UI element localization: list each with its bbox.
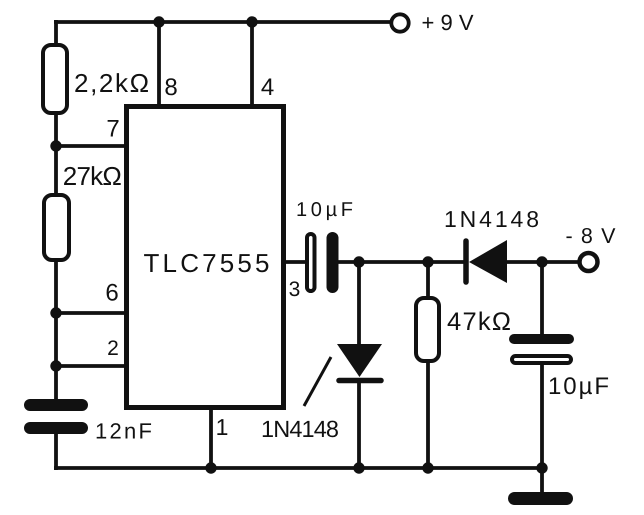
terminal -8V: [580, 253, 598, 271]
capacitor C2 10uF plate 1 (outlined): [307, 234, 315, 291]
svg-text:6: 6: [105, 280, 118, 307]
wire: pin 6 stub: [56, 311, 127, 315]
leader line for D2 label: [304, 357, 331, 406]
resistor R3 47kohm: [416, 298, 439, 361]
svg-text:1N4148: 1N4148: [444, 206, 539, 232]
wire: junction down to C3: [540, 262, 544, 336]
svg-text:2,2kΩ: 2,2kΩ: [74, 68, 149, 98]
diode D1 1N4148 triangle: [469, 240, 507, 283]
svg-text:7: 7: [106, 116, 119, 143]
capacitor C3 10uF plate 2 (outlined): [512, 356, 571, 363]
node: junction to D2: [353, 256, 364, 267]
diode D1 cathode bar: [463, 241, 469, 282]
node: rail to pin 4 junction: [246, 16, 257, 27]
wire: R1 to node 7: [54, 113, 58, 196]
wire: D2 to bottom rail: [357, 380, 361, 468]
wire: pin 1 to bottom rail: [209, 408, 213, 468]
capacitor C1 12nF plate 2: [24, 422, 88, 434]
node: junction at pin 2: [50, 360, 61, 371]
svg-text:2: 2: [107, 337, 119, 360]
svg-text:4: 4: [261, 74, 274, 101]
wire: C1 down to bottom rail: [54, 433, 58, 470]
node: junction at pin 7: [50, 140, 61, 151]
wire: R3 to bottom rail: [426, 361, 430, 468]
wire: bottom rail: [54, 466, 542, 470]
wire: C3 to bottom rail: [540, 365, 544, 468]
node: junction at pin 6: [50, 307, 61, 318]
wire: pin 3 stub: [283, 260, 306, 264]
node: D2 junction on bottom rail: [353, 462, 364, 473]
node: ground junction on bottom rail: [536, 462, 547, 473]
capacitor C2 10uF plate 2 (filled): [327, 232, 339, 293]
wire: +9V top rail: [54, 20, 390, 24]
node: rail to pin 8 junction: [153, 16, 164, 27]
wire: down to diode D2: [357, 262, 361, 346]
resistor R1 2,2kohm: [43, 45, 67, 113]
svg-text:TLC7555: TLC7555: [144, 248, 270, 278]
svg-text:12nF: 12nF: [95, 419, 152, 444]
svg-text:47kΩ: 47kΩ: [447, 308, 511, 336]
wire: rail down to pin 8: [157, 22, 161, 106]
diode D2 1N4148 triangle: [337, 344, 382, 377]
capacitor C3 10uF plate 1 (filled): [509, 334, 574, 344]
wire: rail down to pin 4: [250, 22, 254, 106]
node: junction to R3: [422, 256, 433, 267]
terminal +9V: [391, 14, 408, 31]
svg-text:-8V: -8V: [566, 224, 617, 248]
svg-text:8: 8: [164, 74, 177, 101]
svg-text:3: 3: [289, 278, 301, 301]
svg-text:1N4148: 1N4148: [261, 416, 339, 442]
svg-text:10µF: 10µF: [548, 373, 609, 400]
diode D2 cathode bar: [339, 378, 381, 384]
wire: down to resistor R3: [426, 262, 430, 299]
wire: pin 2 stub: [56, 364, 127, 368]
wire: D1 to -8V terminal: [507, 260, 578, 264]
resistor R2 27kohm: [44, 195, 69, 260]
ground: [508, 492, 573, 505]
svg-text:27kΩ: 27kΩ: [63, 161, 122, 191]
wire: C2 to diode D1: [338, 260, 466, 264]
svg-text:10µF: 10µF: [296, 199, 353, 221]
wire: left vertical rail top segment: [54, 20, 58, 46]
capacitor C1 12nF plate 1: [24, 399, 88, 411]
op-amp U1 TLC7555 box: [127, 107, 284, 408]
node: junction to C3: [536, 256, 547, 267]
wire: junction down to ground: [540, 468, 544, 494]
svg-text:1: 1: [216, 414, 229, 440]
node: pin 1 junction on bottom rail: [205, 462, 216, 473]
wire: pin 7 stub: [56, 144, 127, 148]
wire: R2 down to capacitor C1: [54, 260, 58, 401]
node: R3 junction on bottom rail: [422, 462, 433, 473]
svg-text:+9V: +9V: [422, 10, 474, 35]
